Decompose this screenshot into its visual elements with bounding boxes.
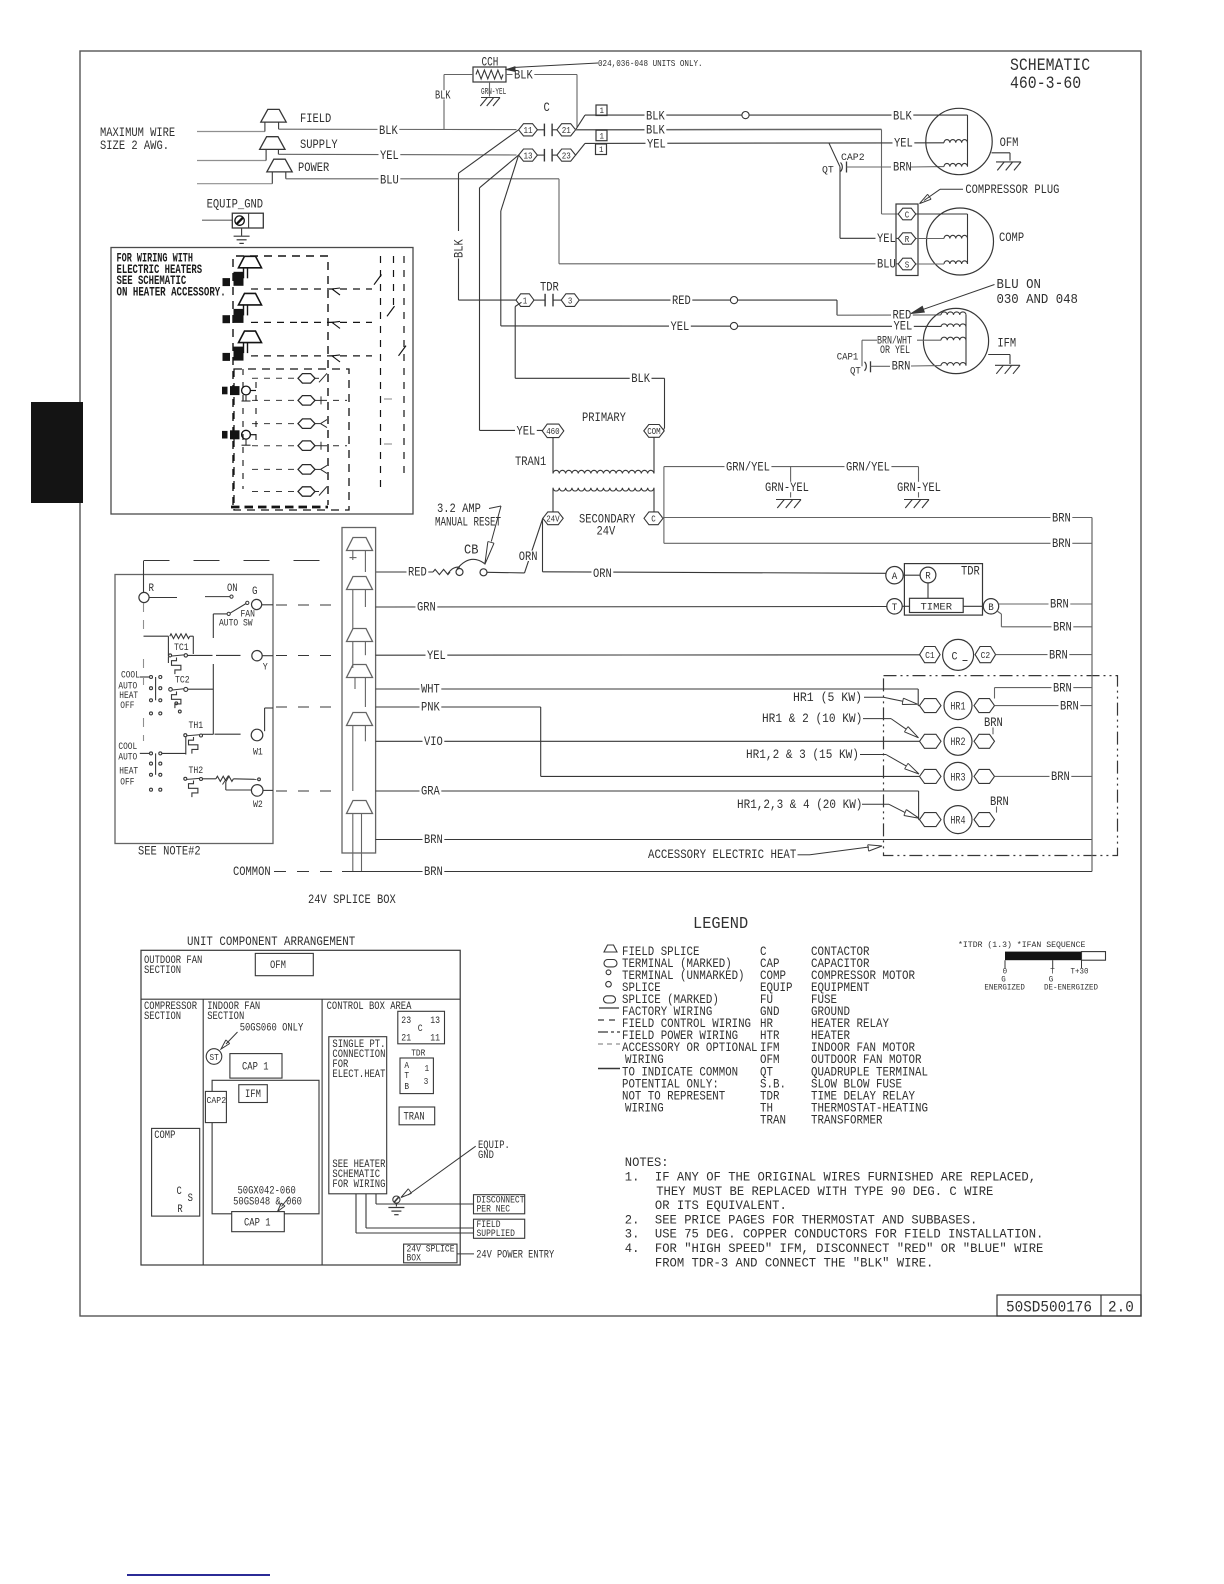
svg-text:HR1 & 2 (10 KW): HR1 & 2 (10 KW)	[762, 711, 862, 726]
svg-text:UNIT COMPONENT ARRANGEMENT: UNIT COMPONENT ARRANGEMENT	[187, 934, 355, 949]
svg-text:R: R	[177, 1204, 183, 1216]
svg-text:BRN: BRN	[1052, 536, 1071, 551]
svg-text:BLK: BLK	[631, 371, 650, 386]
svg-text:DE-ENERGIZED: DE-ENERGIZED	[1044, 983, 1098, 993]
svg-text:TIMER: TIMER	[921, 602, 953, 614]
BRN return bus	[1091, 518, 1093, 872]
svg-text:BLK: BLK	[893, 109, 912, 124]
svg-text:NOTES:: NOTES:	[625, 1155, 669, 1170]
svg-text:ST: ST	[210, 1053, 220, 1063]
svg-text:SECTION: SECTION	[144, 965, 181, 977]
timer terminal B	[983, 599, 998, 614]
svg-text:S: S	[188, 1193, 194, 1205]
wire R dashed to splice box	[143, 561, 145, 570]
svg-text:TC2: TC2	[175, 676, 190, 687]
ground at OFM	[992, 152, 1011, 154]
wire BLU L3 incoming	[197, 183, 272, 185]
svg-text:W2: W2	[253, 800, 263, 811]
wire YEL to contactor coil	[376, 654, 920, 656]
wire G to splice box dashed	[262, 604, 273, 606]
svg-text:GND: GND	[478, 1150, 494, 1162]
wire to thermostat terminal Y	[216, 654, 241, 656]
wire line tap to IFM YEL	[501, 155, 519, 211]
svg-text:GRN/YEL: GRN/YEL	[726, 459, 770, 474]
svg-text:BRN: BRN	[1060, 698, 1079, 713]
TIMER block	[910, 598, 964, 612]
svg-text:BRN: BRN	[1050, 597, 1069, 612]
svg-text:RED: RED	[408, 565, 427, 580]
contactor coil terminal C2	[975, 647, 996, 663]
svg-text:QT: QT	[850, 366, 861, 378]
wire BLK load to OFM	[576, 115, 585, 130]
svg-text:TDR: TDR	[961, 564, 980, 579]
terminal marked 1 on YEL	[596, 144, 607, 155]
legend symbol terminal unmarked	[606, 970, 611, 975]
svg-text:CAP1: CAP1	[837, 352, 859, 364]
svg-text:BLU ON: BLU ON	[997, 277, 1041, 293]
svg-text:A: A	[892, 572, 898, 583]
svg-text:OR YEL: OR YEL	[880, 345, 910, 357]
svg-text:COM: COM	[647, 427, 661, 437]
svg-text:SEE PRICE PAGES FOR THERMOSTAT: SEE PRICE PAGES FOR THERMOSTAT AND SUBBA…	[655, 1212, 978, 1227]
compressor plug	[896, 204, 918, 276]
heater dashed link 3	[251, 355, 300, 357]
disconnect per nec box	[474, 1195, 525, 1214]
svg-text:B: B	[404, 1081, 409, 1092]
wire YEL to contactor 13	[278, 153, 516, 156]
transformer TRAN1 secondary	[553, 488, 654, 491]
svg-text:TRAN: TRAN	[760, 1114, 786, 1128]
wire BRN secondary C to bus	[663, 467, 665, 544]
svg-text:LEGEND: LEGEND	[693, 914, 748, 933]
svg-text:GRA: GRA	[421, 784, 440, 799]
wire BLK CCH left leg	[444, 74, 473, 76]
heater field splice 2	[239, 293, 262, 305]
wire GRN/YEL ground runs	[664, 466, 919, 468]
svg-text:IF ANY OF THE ORIGINAL WIRES F: IF ANY OF THE ORIGINAL WIRES FURNISHED A…	[655, 1170, 1036, 1185]
wire BRN/WHT OR YEL to IFM	[876, 336, 914, 345]
legend symbol splice marked	[604, 996, 616, 1003]
svg-text:YEL: YEL	[894, 319, 913, 334]
legend symbol accessory wiring	[598, 1043, 620, 1045]
wire VIO to HR2	[376, 740, 920, 742]
wire YEL tap to CAP2 and compressor R	[829, 143, 840, 167]
svg-text:13: 13	[430, 1016, 440, 1027]
svg-text:POWER: POWER	[298, 160, 329, 175]
svg-text:C1: C1	[925, 651, 935, 661]
svg-text:C: C	[544, 100, 550, 115]
TRAN component box	[399, 1107, 435, 1125]
wire BRN CAP1 to IFM	[871, 365, 891, 367]
svg-text:24V POWER ENTRY: 24V POWER ENTRY	[476, 1249, 554, 1261]
wire BRN to bus	[376, 839, 1092, 841]
svg-text:CAP 1: CAP 1	[242, 1062, 269, 1074]
svg-text:HR1,2,3 & 4 (20 KW): HR1,2,3 & 4 (20 KW)	[737, 797, 862, 812]
svg-text:24V: 24V	[597, 524, 616, 539]
field splice FIELD	[261, 109, 286, 122]
svg-text:11: 11	[430, 1034, 440, 1045]
svg-text:HR1 (5 KW): HR1 (5 KW)	[793, 690, 862, 705]
svg-text:WIRING: WIRING	[625, 1053, 664, 1067]
legend symbol terminal marked	[604, 960, 617, 967]
wire WHT to HR1	[376, 688, 919, 690]
svg-text:YEL: YEL	[647, 136, 666, 151]
svg-text:WIRING: WIRING	[625, 1102, 664, 1116]
svg-text:BRN: BRN	[990, 794, 1009, 809]
svg-text:50GS048 & 060: 50GS048 & 060	[233, 1197, 302, 1209]
IFM component box	[239, 1085, 267, 1103]
OFM component box	[255, 953, 313, 975]
svg-text:GRN: GRN	[417, 600, 436, 615]
wire BLK load to compressor plug C	[576, 128, 882, 130]
svg-text:ON HEATER ACCESSORY.: ON HEATER ACCESSORY.	[117, 284, 226, 299]
svg-text:CAP2: CAP2	[207, 1095, 227, 1106]
svg-text:BLU: BLU	[380, 173, 399, 188]
svg-text:TH2: TH2	[189, 766, 204, 777]
svg-text:C2: C2	[981, 651, 991, 661]
legend symbol common potential	[598, 1068, 620, 1070]
legend symbol field control wiring	[598, 1019, 620, 1021]
svg-text:T: T	[404, 1070, 409, 1081]
wire BRN contactor coil to bus	[996, 654, 1092, 656]
svg-text:BLK: BLK	[452, 239, 467, 258]
heater field splice 3	[239, 331, 262, 343]
svg-text:ENERGIZED: ENERGIZED	[984, 983, 1025, 993]
svg-text:BRN: BRN	[1053, 620, 1072, 635]
svg-text:COOL: COOL	[118, 742, 137, 753]
wire BLK tap to transformer COM	[515, 302, 521, 306]
ground 1 GRN-YEL	[790, 467, 792, 498]
svg-text:HR3: HR3	[950, 772, 965, 784]
field wiring to disconnect	[355, 1194, 357, 1233]
border frame	[80, 51, 1141, 1316]
legend symbol field splice	[604, 945, 617, 952]
svg-text:YEL: YEL	[894, 135, 913, 150]
svg-text:460: 460	[546, 427, 560, 437]
outdoor fan motor OFM	[926, 108, 992, 174]
svg-text:GRN/YEL: GRN/YEL	[846, 459, 890, 474]
svg-text:PRIMARY: PRIMARY	[582, 410, 626, 425]
svg-text:HR1: HR1	[950, 702, 965, 714]
wire BLK CCH right leg	[506, 74, 577, 76]
wire RED splice box to CB	[376, 571, 433, 573]
svg-text:1: 1	[600, 106, 605, 116]
wire Y to splice box dashed	[262, 655, 273, 657]
svg-text:COMPRESSOR PLUG: COMPRESSOR PLUG	[965, 182, 1059, 197]
svg-text:2.: 2.	[625, 1212, 640, 1227]
wire ORN to TDR A	[543, 572, 887, 574]
heater box internal dashed stubs	[242, 369, 244, 489]
COMP component box	[152, 1128, 200, 1216]
svg-text:BRN: BRN	[424, 864, 443, 879]
svg-text:COOL: COOL	[121, 671, 140, 682]
svg-text:BRN: BRN	[1053, 680, 1072, 695]
contactor coil C	[943, 639, 974, 670]
svg-text:2.0: 2.0	[1108, 1299, 1134, 1317]
thermostat terminal W1	[215, 733, 241, 735]
heater accessory dashed bus lines	[380, 256, 382, 489]
svg-text:TH1: TH1	[189, 721, 204, 732]
label 24V POWER ENTRY	[457, 1253, 474, 1255]
heater dashed link 2	[251, 321, 300, 323]
svg-text:R: R	[149, 583, 155, 595]
svg-text:OFF: OFF	[120, 701, 134, 712]
svg-text:BRN: BRN	[1049, 647, 1068, 662]
svg-text:13: 13	[524, 150, 533, 161]
24V splice box	[342, 528, 376, 854]
wire BLK to contactor 11	[279, 128, 517, 130]
svg-text:TC1: TC1	[174, 643, 189, 654]
terminal marked 1 on BLK	[596, 105, 607, 116]
heater accessory inner dashed enclosure	[233, 256, 328, 505]
svg-text:SECTION: SECTION	[207, 1011, 244, 1023]
svg-text:ORN: ORN	[519, 549, 538, 564]
svg-text:11: 11	[524, 125, 533, 136]
heater splice base ticks	[245, 395, 247, 401]
svg-text:3.: 3.	[625, 1227, 640, 1242]
svg-text:RED: RED	[672, 293, 691, 308]
svg-text:PNK: PNK	[421, 700, 440, 715]
24V splice box component	[404, 1244, 457, 1263]
svg-text:COMP: COMP	[154, 1130, 176, 1142]
single point connection box	[329, 1037, 387, 1194]
wire GRA to HR4	[376, 790, 919, 792]
heater dashed link 1	[251, 288, 300, 290]
heater relay splice 6	[298, 487, 315, 496]
ground 2 GRN-YEL	[918, 467, 920, 498]
wire BRN CAP2 to OFM	[847, 166, 892, 168]
svg-text:T+30: T+30	[1071, 967, 1089, 977]
svg-text:IFM: IFM	[997, 336, 1016, 351]
CAP 1 upper box	[230, 1054, 282, 1079]
svg-text:CB: CB	[464, 543, 478, 559]
svg-text:3: 3	[568, 295, 573, 306]
ground symbol below EQUIP GND	[241, 228, 243, 236]
svg-text:YEL: YEL	[427, 648, 446, 663]
svg-text:C: C	[418, 1024, 423, 1035]
timer terminal T	[887, 599, 902, 614]
svg-text:FIELD: FIELD	[300, 111, 331, 126]
field supplied box	[474, 1219, 525, 1238]
heater splice circles	[242, 386, 251, 395]
heater relay splice 1	[298, 374, 315, 384]
wire W1 to splice box dashed	[276, 706, 342, 708]
svg-text:1: 1	[523, 295, 528, 306]
wire BRN HR1 upper return	[994, 688, 996, 699]
svg-text:50GS060 ONLY: 50GS060 ONLY	[240, 1023, 304, 1035]
svg-text:1: 1	[599, 145, 604, 155]
svg-text:BLK: BLK	[435, 90, 451, 103]
svg-text:QT: QT	[822, 165, 834, 177]
svg-text:TRAN: TRAN	[404, 1112, 425, 1124]
svg-text:G: G	[252, 586, 258, 598]
wire YEL load to OFM	[576, 143, 585, 155]
svg-text:SEE NOTE#2: SEE NOTE#2	[138, 844, 201, 859]
svg-text:CAP 1: CAP 1	[244, 1218, 271, 1230]
svg-text:23: 23	[401, 1016, 411, 1027]
note box FOR WIRING WITH ELECTRIC HEATERS	[111, 248, 413, 515]
svg-text:TRAN1: TRAN1	[515, 454, 546, 469]
heater fuse switch slashes	[374, 275, 382, 285]
heater relay splice 5	[298, 465, 315, 475]
svg-text:SUPPLIED: SUPPLIED	[477, 1229, 515, 1240]
svg-text:Y: Y	[263, 663, 268, 674]
svg-text:OFM: OFM	[760, 1053, 780, 1067]
heater accessory lower dashed enclosure	[234, 369, 349, 510]
svg-text:BRN: BRN	[1052, 510, 1071, 525]
svg-text:C: C	[952, 651, 958, 663]
splice VIO in 24V splice box	[347, 713, 373, 726]
svg-text:TDR: TDR	[540, 280, 559, 295]
svg-text:BRN: BRN	[1051, 769, 1070, 784]
ground at IFM	[988, 354, 1010, 356]
svg-text:W1: W1	[253, 748, 263, 759]
wire BRN HR3 return	[995, 775, 1092, 777]
svg-text:AUTO SW: AUTO SW	[219, 619, 253, 630]
svg-text:OFM: OFM	[270, 960, 286, 972]
timer terminal A	[886, 567, 903, 584]
wire PNK lower run to HR3	[541, 775, 920, 777]
indoor fan housing box	[212, 1080, 319, 1214]
compressor motor COMP	[927, 208, 994, 275]
svg-text:YEL: YEL	[380, 148, 399, 163]
contactor contact 13-23	[519, 149, 538, 161]
wire BRN timer B to bus	[999, 603, 1092, 605]
svg-text:C: C	[177, 1186, 183, 1198]
indoor fan motor IFM	[923, 308, 988, 373]
svg-text:BLK: BLK	[646, 122, 665, 137]
wire GRN to timer T	[376, 606, 887, 609]
svg-text:BLU: BLU	[877, 257, 896, 272]
legend symbol factory wiring	[599, 1007, 619, 1009]
CAP2 component box	[205, 1091, 226, 1122]
svg-text:BRN: BRN	[892, 359, 911, 374]
svg-text:USE 75 DEG. COPPER CONDUCTORS: USE 75 DEG. COPPER CONDUCTORS FOR FIELD …	[655, 1227, 1044, 1242]
wire W2 to splice box dashed	[263, 789, 273, 791]
svg-text:S: S	[905, 259, 910, 270]
heater relay coil HR2	[920, 734, 942, 748]
svg-text:VIO: VIO	[424, 734, 443, 749]
CAP 1 lower box	[232, 1212, 285, 1232]
wire BRN HR1 return	[995, 705, 1092, 707]
svg-text:HEAT: HEAT	[119, 766, 138, 777]
svg-text:ELECT.HEAT: ELECT.HEAT	[332, 1069, 385, 1081]
svg-text:1: 1	[600, 131, 605, 141]
splice box internal stems	[352, 551, 354, 561]
svg-text:1.: 1.	[625, 1170, 640, 1185]
svg-text:50GX042-060: 50GX042-060	[238, 1185, 296, 1197]
wire BRN timer B drop to bus	[997, 611, 1001, 614]
thermostat terminal R	[139, 592, 149, 602]
svg-text:460-3-60: 460-3-60	[1010, 75, 1081, 94]
svg-text:FOR "HIGH SPEED" IFM, DISCONNE: FOR "HIGH SPEED" IFM, DISCONNECT "RED" O…	[655, 1241, 1044, 1256]
svg-text:IFM: IFM	[245, 1089, 261, 1101]
contactor coil terminal C1	[920, 647, 941, 663]
heater relay coil HR3	[920, 769, 942, 783]
heater relay splice 3	[298, 419, 315, 429]
heater relay splice 2	[298, 396, 315, 406]
svg-text:FOR WIRING: FOR WIRING	[332, 1179, 385, 1191]
wire YEL to IFM	[501, 325, 941, 328]
splice RED in 24V splice box	[347, 538, 373, 551]
field splice SUPPLY	[260, 137, 285, 150]
svg-text:SECTION: SECTION	[144, 1011, 181, 1023]
wire YEL line tap to transformer 460	[480, 155, 519, 188]
svg-text:WHT: WHT	[421, 682, 440, 697]
svg-text:YEL: YEL	[671, 319, 690, 334]
splice GRN in 24V splice box	[347, 577, 373, 590]
heater relay splice 4	[298, 441, 315, 451]
wire BLU to compressor S terminal	[286, 178, 559, 180]
svg-text:024,036-048 UNITS ONLY.: 024,036-048 UNITS ONLY.	[598, 58, 703, 69]
svg-text:HR4: HR4	[950, 816, 965, 828]
splice YEL in 24V splice box	[347, 629, 373, 642]
svg-text:*ITDR (1.3) *IFAN SEQUENCE: *ITDR (1.3) *IFAN SEQUENCE	[958, 940, 1085, 950]
svg-text:BLK: BLK	[514, 68, 533, 83]
svg-text:COMMON: COMMON	[233, 864, 271, 879]
svg-text:CAP2: CAP2	[841, 152, 865, 164]
svg-text:BRN: BRN	[893, 160, 912, 175]
svg-text:T: T	[892, 603, 898, 614]
svg-text:TDR: TDR	[411, 1048, 425, 1059]
svg-text:SCHEMATIC: SCHEMATIC	[1010, 57, 1090, 76]
unit outline box	[141, 950, 460, 1265]
svg-text:OR ITS EQUIVALENT.: OR ITS EQUIVALENT.	[655, 1198, 787, 1213]
svg-text:ORN: ORN	[593, 566, 612, 581]
accessory electric heat dash-dot box	[884, 676, 1118, 856]
svg-text:C: C	[905, 209, 910, 220]
cooling thermostat TC1	[144, 635, 169, 637]
svg-text:MANUAL RESET: MANUAL RESET	[435, 515, 501, 530]
svg-text:4.: 4.	[625, 1241, 640, 1256]
thermostat R dashed drops	[143, 603, 145, 631]
title block	[997, 1295, 1141, 1316]
svg-text:GRN-YEL: GRN-YEL	[481, 86, 506, 97]
heater accessory gray dash stubs	[384, 398, 392, 400]
svg-text:1: 1	[425, 1063, 430, 1074]
svg-text:24V: 24V	[546, 515, 560, 525]
svg-text:PER NEC: PER NEC	[477, 1205, 511, 1216]
heater relay coil HR4	[920, 813, 942, 827]
start relay ST	[206, 1049, 222, 1065]
contactor C terminals box	[398, 1011, 445, 1044]
svg-text:50SD500176: 50SD500176	[1006, 1299, 1092, 1317]
svg-text:24V SPLICE BOX: 24V SPLICE BOX	[308, 892, 396, 907]
svg-text:OFF: OFF	[120, 777, 134, 788]
svg-text:EQUIP_GND: EQUIP_GND	[207, 197, 264, 212]
svg-text:C: C	[651, 514, 656, 525]
svg-text:BRN: BRN	[424, 832, 443, 847]
svg-text:B: B	[988, 603, 994, 614]
svg-text:23: 23	[562, 150, 571, 161]
wire PNK to HR3	[376, 706, 541, 708]
heater relay coil HR1	[920, 699, 942, 713]
svg-text:SUPPLY: SUPPLY	[300, 137, 338, 152]
svg-text:GRN-YEL: GRN-YEL	[897, 480, 941, 495]
svg-text:OUTDOOR FAN MOTOR: OUTDOOR FAN MOTOR	[811, 1053, 922, 1067]
svg-text:ON: ON	[227, 583, 238, 595]
svg-text:BOX: BOX	[407, 1254, 421, 1265]
thermostat assembly box SEE NOTE#2	[115, 575, 273, 844]
splice on BLK wire	[742, 112, 749, 119]
terminal marked 1 on BLK 2	[596, 130, 607, 141]
thermostat terminal W2	[251, 785, 263, 797]
svg-text:SIZE 2 AWG.: SIZE 2 AWG.	[100, 138, 169, 153]
svg-text:AUTO: AUTO	[118, 752, 137, 763]
ground lug in control box	[393, 1196, 400, 1203]
fan auto wire	[213, 613, 227, 615]
svg-text:R: R	[925, 572, 931, 583]
